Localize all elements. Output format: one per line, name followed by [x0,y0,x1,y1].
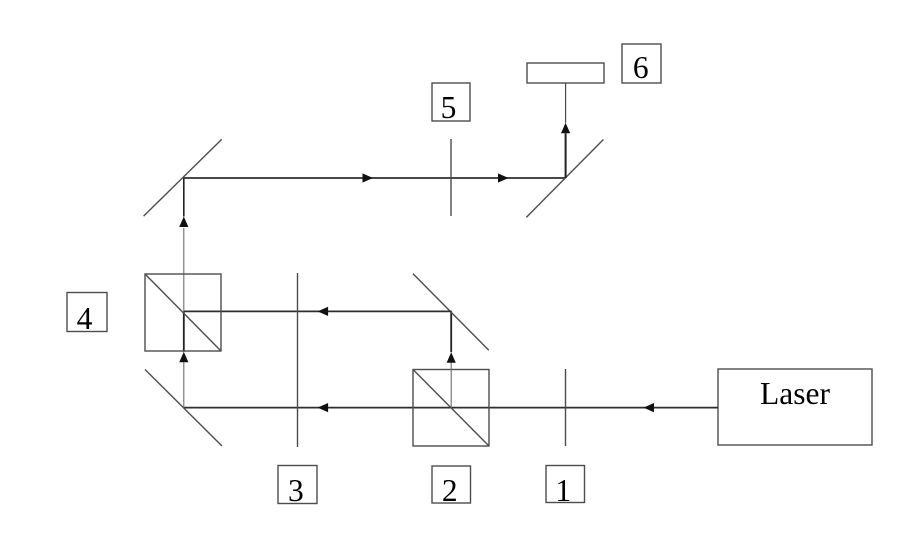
arrow up above cube 2 [447,352,456,363]
arrow right on top beam (right of element 5) [498,173,509,182]
label box 1 [546,466,585,509]
wire: bold shaft from mirror M4 corner up to arrow [565,133,567,178]
wire: top beam from mirror M3 to mirror M4 [184,177,566,179]
wire: bold shaft from arrow tip to cube 4 centre [183,311,185,351]
label box 3 [278,466,317,509]
label box 2 [432,466,471,508]
svg-text:3: 3 [288,473,304,508]
plate element 1 [565,369,567,446]
arrow up below mirror M3 [179,217,188,228]
wire: thin vertical beam through upper half of cube 4 to arrow below M3 [183,228,185,312]
label box 5 [432,83,470,125]
svg-text:4: 4 [77,301,93,336]
arrow left on middle beam [318,307,329,316]
arrow up below cube 4 [179,352,188,363]
wire: bottom beam from laser to mirror M1 [184,407,718,409]
wire: vertical beam from cube 2 up to arrow (thin) [450,363,452,408]
label box 6 [622,44,661,85]
wire: thin beam from arrow tip to detector 6 [565,83,567,123]
laser box [718,369,872,445]
label box 4 [67,293,107,337]
mirror M2 (above cube 2) [413,274,489,351]
beamsplitter cube 4 [145,274,221,351]
svg-text:6: 6 [633,50,649,85]
arrow left near laser [644,403,655,412]
svg-text:1: 1 [555,473,571,508]
wire: vertical beam from mirror M1 up to arrow below cube 4 (thin) [183,362,185,407]
svg-text:5: 5 [441,90,457,125]
detector element 6 [527,63,604,83]
mirror M1 (bottom left) [145,370,222,447]
arrow up below detector [561,123,570,134]
wire: vertical beam arrow shaft up to mirror M2 [450,311,452,352]
wire: middle beam from mirror M2 to cube 4 [184,310,452,312]
svg-text:Laser: Laser [760,376,830,411]
mirror M4 (top right) [526,140,603,218]
wire: bold shaft from arrow tip to mirror M3 corner [183,178,185,217]
beamsplitter cube 2 [413,370,489,447]
svg-text:2: 2 [442,473,458,508]
mirror M3 (top left) [144,139,222,216]
plate element 3 [297,273,299,447]
arrow right on top beam (left of element 5) [363,173,374,182]
arrow left between element 3 and cube 2 (bottom beam) [318,403,329,412]
plate element 5 [450,139,452,216]
